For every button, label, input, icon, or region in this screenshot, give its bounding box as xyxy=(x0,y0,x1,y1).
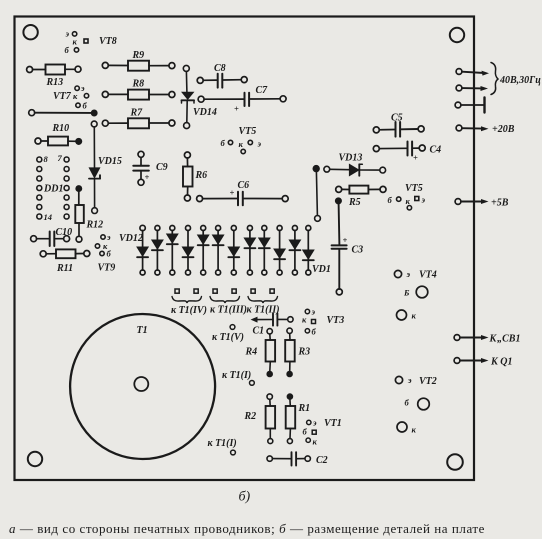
svg-text:14: 14 xyxy=(44,212,53,222)
diode D10 of bank xyxy=(274,226,285,276)
svg-text:к: к xyxy=(239,139,244,149)
svg-text:а — вид со стороны печатных пр: а — вид со стороны печатных проводников;… xyxy=(9,521,485,536)
capacitor C8 xyxy=(197,63,247,88)
svg-text:C7: C7 xyxy=(256,85,269,96)
capacitor C4 xyxy=(373,142,441,163)
diode D5 of bank xyxy=(198,226,209,276)
brace T1 II xyxy=(248,297,278,304)
svg-text:+: + xyxy=(413,153,418,163)
svg-text:VT5: VT5 xyxy=(405,183,423,194)
pad terminal blank xyxy=(455,98,484,113)
transistor VT5 xyxy=(388,183,426,210)
svg-text:C8: C8 xyxy=(214,63,226,74)
svg-text:э: э xyxy=(406,269,411,279)
svg-text:к Т1(I): к Т1(I) xyxy=(222,370,251,381)
capacitor C2 xyxy=(267,452,328,466)
svg-text:VD12: VD12 xyxy=(119,233,143,244)
caption b) xyxy=(239,490,251,505)
label K Q1 xyxy=(490,357,513,368)
brace AC pair xyxy=(491,63,498,95)
resistor R3 xyxy=(285,328,310,376)
T1 winding pad 4 xyxy=(232,289,236,293)
svg-text:7: 7 xyxy=(58,153,63,163)
svg-text:R7: R7 xyxy=(130,108,144,119)
svg-text:к: к xyxy=(302,315,307,325)
svg-text:C9: C9 xyxy=(156,162,168,173)
svg-text:R12: R12 xyxy=(86,220,104,231)
transistor VT3 xyxy=(302,307,344,337)
svg-text:VT2: VT2 xyxy=(419,376,437,387)
svg-text:б: б xyxy=(221,138,226,148)
svg-text:R6: R6 xyxy=(195,170,208,181)
T1 winding pad 1 xyxy=(175,289,179,293)
svg-text:R13: R13 xyxy=(46,77,64,88)
svg-text:VT1: VT1 xyxy=(324,418,342,429)
svg-text:э: э xyxy=(312,418,317,428)
svg-text:б: б xyxy=(83,101,88,111)
diode D4 of bank xyxy=(183,226,194,276)
svg-text:к: к xyxy=(406,196,411,206)
zener diode VD13 xyxy=(324,153,386,176)
svg-text:К „СВ1: К „СВ1 xyxy=(489,334,521,345)
label +20V xyxy=(492,124,515,135)
svg-text:C1: C1 xyxy=(253,326,265,337)
label VD12 xyxy=(119,233,143,244)
svg-text:C2: C2 xyxy=(316,455,328,466)
label K CB1 xyxy=(489,334,521,345)
diode VD14 xyxy=(182,65,217,128)
label k T1(III) xyxy=(210,305,247,316)
brace T1 III xyxy=(210,297,240,304)
board outline xyxy=(15,17,475,481)
svg-text:+: + xyxy=(234,104,239,114)
resistor R12 xyxy=(75,186,103,242)
resistor R4 xyxy=(245,329,276,377)
mounting hole bottom-left xyxy=(28,452,42,466)
T1 winding pad 6 xyxy=(270,289,274,293)
svg-text:э: э xyxy=(80,83,85,93)
resistor R13 xyxy=(27,65,81,89)
diode D11 of bank xyxy=(289,226,300,276)
pad CB1 output xyxy=(454,335,488,341)
svg-text:VT7: VT7 xyxy=(53,91,72,102)
svg-text:R9: R9 xyxy=(132,50,145,61)
resistor R11 xyxy=(40,249,90,274)
svg-text:40В,30Гц: 40В,30Гц xyxy=(499,75,541,86)
svg-text:к Т1(III): к Т1(III) xyxy=(210,305,247,316)
svg-text:Б: Б xyxy=(403,288,410,298)
resistor R2 xyxy=(244,394,276,444)
label 40V 30Hz xyxy=(499,75,541,86)
T1 winding pad 2 xyxy=(194,289,198,293)
resistor R10 xyxy=(35,123,81,145)
diode D6 of bank xyxy=(213,226,224,276)
svg-text:к: к xyxy=(73,91,78,101)
svg-text:C4: C4 xyxy=(430,145,442,156)
label k T1(IV) xyxy=(171,305,207,316)
svg-text:+5В: +5В xyxy=(491,198,509,209)
diode D12 of bank xyxy=(303,226,314,276)
diode D8 of bank xyxy=(244,226,255,276)
pad AC input 2 xyxy=(456,85,488,91)
svg-text:VD14: VD14 xyxy=(193,107,217,118)
svg-text:VT3: VT3 xyxy=(327,315,345,326)
transistor VT2 xyxy=(395,375,436,435)
capacitor C1 xyxy=(251,313,294,336)
svg-text:C3: C3 xyxy=(352,245,364,256)
svg-text:+: + xyxy=(230,188,235,198)
svg-text:C6: C6 xyxy=(238,180,250,191)
svg-text:+20В: +20В xyxy=(492,124,515,135)
label +5V xyxy=(491,198,509,209)
pad +20V output xyxy=(456,125,488,131)
svg-text:к: к xyxy=(412,425,417,435)
resistor R8 xyxy=(102,79,175,100)
resistor R6 xyxy=(183,152,207,201)
svg-text:R3: R3 xyxy=(298,347,311,358)
svg-text:R8: R8 xyxy=(132,79,145,90)
svg-text:VD13: VD13 xyxy=(339,153,363,164)
svg-text:8: 8 xyxy=(44,154,49,164)
svg-text:э: э xyxy=(65,29,70,39)
diode D1 of bank xyxy=(137,225,148,275)
svg-text:б: б xyxy=(303,427,308,437)
svg-text:Т1: Т1 xyxy=(137,325,148,336)
svg-text:э: э xyxy=(311,307,316,317)
zener diode VD15 xyxy=(89,121,122,213)
wire node B xyxy=(313,166,320,222)
svg-text:R4: R4 xyxy=(245,347,258,358)
svg-text:б: б xyxy=(388,195,393,205)
svg-text:к Т1(IV): к Т1(IV) xyxy=(171,305,207,316)
svg-text:К Q1: К Q1 xyxy=(490,357,513,368)
T1 winding pad 5 xyxy=(251,289,255,293)
pad +5V output xyxy=(455,199,488,205)
mounting hole top-right xyxy=(450,28,464,42)
transistor VT6 xyxy=(221,126,262,154)
svg-text:э: э xyxy=(407,375,412,385)
label VD1 xyxy=(312,264,331,275)
svg-text:б: б xyxy=(65,45,70,55)
diode D9 of bank xyxy=(259,226,270,276)
svg-text:VD1: VD1 xyxy=(312,264,331,275)
pad Q1 output xyxy=(454,358,488,364)
transistor VT8 xyxy=(65,29,117,55)
capacitor C7 xyxy=(198,85,286,114)
svg-text:R10: R10 xyxy=(52,123,70,134)
resistor R1 xyxy=(286,394,310,444)
svg-text:б: б xyxy=(312,327,317,337)
capacitor C10 xyxy=(31,227,73,246)
svg-text:R1: R1 xyxy=(298,403,311,414)
svg-text:б: б xyxy=(107,249,112,259)
IC DD1 xyxy=(37,153,69,222)
svg-text:DD1: DD1 xyxy=(43,184,63,195)
capacitor C6 xyxy=(197,180,289,205)
pad AC input 1 xyxy=(456,69,489,76)
svg-text:э: э xyxy=(421,195,426,205)
transistor VT9 xyxy=(95,232,115,274)
capacitor C5 xyxy=(373,113,424,137)
svg-text:э: э xyxy=(257,139,262,149)
mounting hole bottom-right xyxy=(447,454,463,470)
resistor R5 xyxy=(336,186,386,208)
diode D2 of bank xyxy=(152,226,163,276)
diode D7 of bank xyxy=(228,226,239,276)
svg-text:R2: R2 xyxy=(244,411,257,422)
svg-text:VT8: VT8 xyxy=(99,36,117,47)
label k T1(II) xyxy=(247,305,280,316)
transistor VT7 xyxy=(53,83,89,111)
svg-text:VT4: VT4 xyxy=(419,270,437,281)
node k T1(1) xyxy=(222,370,254,385)
svg-text:VT5: VT5 xyxy=(239,126,257,137)
wire node A xyxy=(29,110,97,116)
svg-text:б: б xyxy=(405,398,410,408)
resistor R9 xyxy=(102,50,175,71)
capacitor C9 xyxy=(133,151,167,185)
svg-text:к Т1(I): к Т1(I) xyxy=(208,438,237,449)
capacitor C3 xyxy=(332,198,364,295)
svg-text:+: + xyxy=(145,172,150,182)
svg-text:R5: R5 xyxy=(348,197,361,208)
svg-text:к Т1(V): к Т1(V) xyxy=(212,332,244,343)
brace T1 IV xyxy=(172,297,202,304)
node k T1(V) xyxy=(212,325,244,343)
transistor VT4 xyxy=(394,269,436,321)
resistor R7 xyxy=(102,108,175,129)
T1 winding pad 3 xyxy=(213,289,217,293)
svg-text:к: к xyxy=(412,311,417,321)
svg-text:+: + xyxy=(343,235,348,245)
transistor VT1 xyxy=(303,418,342,447)
svg-text:VT9: VT9 xyxy=(98,263,116,274)
caption line xyxy=(9,521,485,536)
node k T1(I) low xyxy=(208,438,237,455)
mounting hole top-left xyxy=(23,25,37,39)
svg-text:к: к xyxy=(73,36,78,46)
svg-text:R11: R11 xyxy=(56,263,73,274)
diode D3 of bank xyxy=(167,226,178,276)
transformer T1 xyxy=(70,314,215,459)
svg-text:к: к xyxy=(313,437,318,447)
svg-text:к Т1(II): к Т1(II) xyxy=(247,305,280,316)
svg-text:VD15: VD15 xyxy=(98,156,122,167)
svg-text:б): б) xyxy=(239,490,251,505)
